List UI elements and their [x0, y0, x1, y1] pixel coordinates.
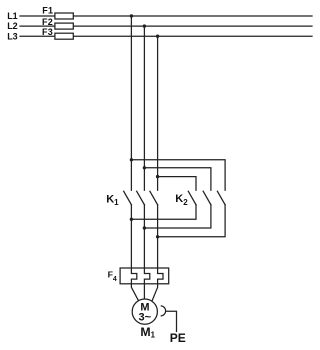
svg-text:L2: L2: [7, 21, 18, 31]
svg-text:K1: K1: [106, 194, 119, 208]
svg-text:F2: F2: [42, 17, 53, 27]
svg-text:F1: F1: [42, 6, 53, 16]
svg-text:L3: L3: [7, 31, 18, 41]
svg-text:3~: 3~: [139, 311, 152, 323]
svg-text:F3: F3: [42, 27, 53, 37]
svg-text:M1: M1: [140, 325, 155, 340]
svg-text:F4: F4: [108, 270, 117, 284]
svg-text:PE: PE: [170, 331, 186, 345]
svg-text:L1: L1: [7, 11, 18, 21]
svg-text:K2: K2: [175, 193, 188, 207]
